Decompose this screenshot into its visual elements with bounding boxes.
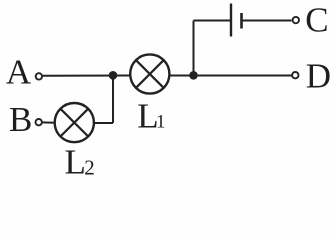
svg-text:A: A [6,53,32,92]
svg-text:C: C [305,1,328,40]
svg-text:L: L [65,143,86,181]
svg-text:1: 1 [156,111,166,132]
svg-text:2: 2 [84,155,95,179]
svg-text:D: D [306,56,331,95]
svg-text:B: B [9,100,32,139]
